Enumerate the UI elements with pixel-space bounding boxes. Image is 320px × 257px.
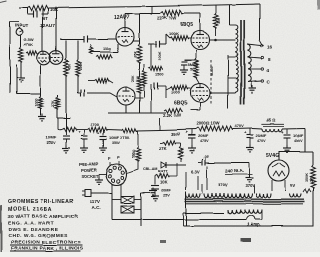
- svg-text:2000Ω 10W: 2000Ω 10W: [197, 121, 219, 126]
- svg-text:16: 16: [267, 45, 273, 50]
- svg-text:6T: 6T: [43, 16, 48, 21]
- svg-text:2.2K ½W: 2.2K ½W: [163, 113, 182, 118]
- svg-text:20MF: 20MF: [198, 133, 209, 138]
- svg-text:8: 8: [268, 57, 271, 62]
- svg-text:470V: 470V: [234, 123, 244, 128]
- svg-text:350V: 350V: [171, 132, 181, 137]
- svg-text:240 M.A.: 240 M.A.: [225, 169, 244, 174]
- svg-text:30 WATT BASIC AMPLIFIER: 30 WATT BASIC AMPLIFIER: [8, 214, 78, 220]
- svg-text:SLIDE: SLIDE: [210, 65, 214, 76]
- svg-text:CHD. W.G. GROMMES: CHD. W.G. GROMMES: [8, 233, 68, 239]
- svg-text:BATT.: BATT.: [158, 170, 168, 174]
- svg-text:50: 50: [190, 67, 195, 72]
- svg-text:100K: 100K: [158, 51, 162, 60]
- svg-text:6.3V: 6.3V: [191, 170, 200, 175]
- svg-text:6BQ5: 6BQ5: [174, 101, 187, 107]
- svg-text:SOCKET: SOCKET: [81, 174, 99, 179]
- svg-text:117V: 117V: [90, 199, 101, 204]
- svg-text:350V: 350V: [47, 141, 56, 145]
- svg-text:45 Ω: 45 Ω: [266, 118, 275, 123]
- svg-text:2W: 2W: [310, 176, 314, 182]
- svg-text:1500: 1500: [155, 72, 164, 76]
- svg-text:10MF: 10MF: [293, 133, 304, 138]
- svg-text:10K: 10K: [50, 7, 58, 12]
- svg-text:470V: 470V: [257, 139, 266, 143]
- svg-text:560Ω: 560Ω: [132, 149, 136, 158]
- svg-text:27K: 27K: [159, 146, 167, 151]
- svg-text:4: 4: [267, 68, 270, 73]
- svg-text:10MF VT50: 10MF VT50: [109, 135, 130, 140]
- svg-text:47K: 47K: [181, 147, 185, 154]
- svg-text:1000: 1000: [35, 99, 39, 107]
- svg-text:475V: 475V: [200, 139, 209, 143]
- svg-text:A.C.: A.C.: [92, 205, 101, 210]
- svg-text:MODEL 216BA: MODEL 216BA: [8, 207, 53, 213]
- svg-text:470K: 470K: [24, 42, 34, 47]
- svg-text:450V: 450V: [294, 139, 303, 143]
- svg-text:GROMMES TRI-LINEAR: GROMMES TRI-LINEAR: [8, 199, 73, 205]
- svg-text:20MF: 20MF: [161, 189, 171, 193]
- svg-text:1000: 1000: [171, 90, 181, 95]
- svg-text:370V: 370V: [245, 184, 255, 189]
- svg-text:.05: .05: [203, 154, 209, 159]
- svg-text:25K: 25K: [131, 75, 135, 82]
- svg-text:100: 100: [217, 18, 221, 24]
- svg-text:25V: 25V: [163, 194, 170, 198]
- svg-text:350V: 350V: [112, 141, 121, 145]
- svg-text:ENG. A.A. HART: ENG. A.A. HART: [8, 221, 54, 227]
- svg-text:350K: 350K: [305, 173, 309, 182]
- svg-text:20MF: 20MF: [256, 133, 267, 138]
- svg-text:1500: 1500: [103, 47, 112, 51]
- svg-text:POWER: POWER: [81, 168, 97, 173]
- svg-text:5V: 5V: [290, 183, 295, 188]
- svg-text:220K ½W: 220K ½W: [157, 16, 177, 21]
- svg-text:2700: 2700: [90, 122, 100, 127]
- svg-text:100K: 100K: [169, 31, 179, 36]
- svg-text:45K: 45K: [68, 63, 72, 70]
- svg-text:5V4G: 5V4G: [266, 153, 279, 159]
- svg-text:370V: 370V: [218, 183, 228, 188]
- svg-text:27K: 27K: [51, 100, 55, 107]
- svg-text:12AU7: 12AU7: [114, 15, 130, 21]
- svg-text:CBL-AM: CBL-AM: [143, 167, 157, 171]
- svg-text:DWG E. DEANDRE: DWG E. DEANDRE: [8, 227, 59, 233]
- svg-text:10MF: 10MF: [46, 135, 57, 140]
- svg-text:½W: ½W: [136, 75, 140, 82]
- svg-text:PRE-AMP: PRE-AMP: [79, 162, 99, 167]
- svg-text:65K: 65K: [134, 51, 138, 58]
- svg-text:10K: 10K: [160, 180, 168, 185]
- svg-text:6BQ5: 6BQ5: [180, 22, 193, 28]
- svg-text:100K: 100K: [79, 61, 83, 70]
- svg-text:INPUT: INPUT: [15, 23, 29, 28]
